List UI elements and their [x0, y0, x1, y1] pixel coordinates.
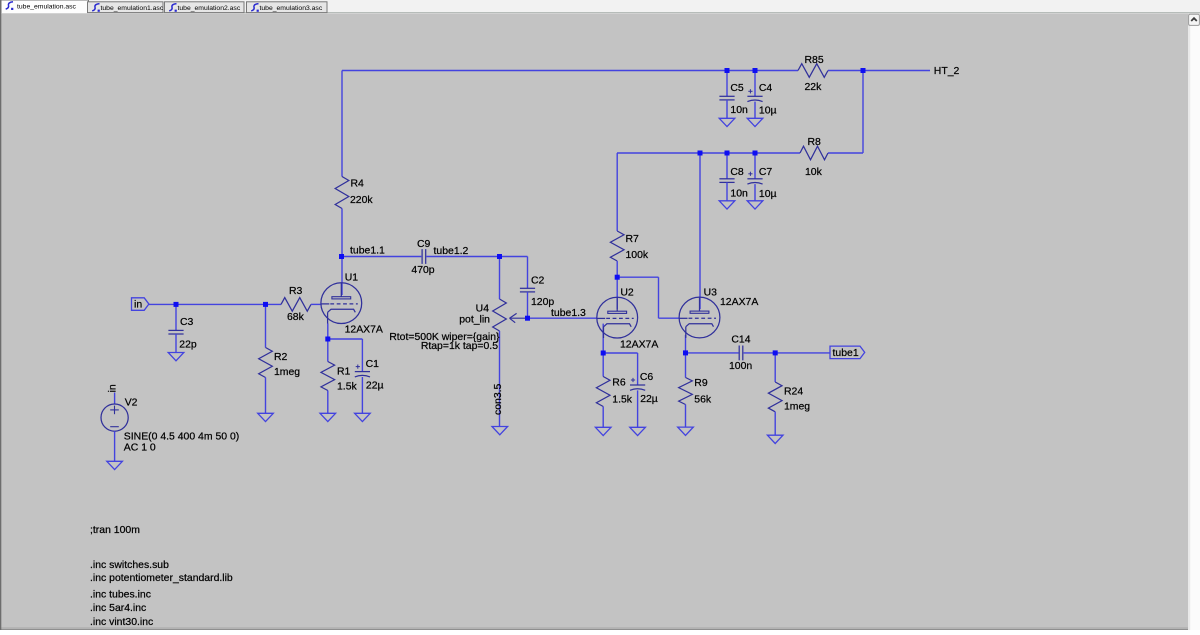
svg-text:.inc potentiometer_standard.li: .inc potentiometer_standard.lib: [90, 573, 233, 584]
svg-text:22µ: 22µ: [640, 394, 658, 405]
svg-text:12AX7A: 12AX7A: [620, 339, 658, 350]
svg-text:C3: C3: [180, 317, 194, 328]
svg-text:R7: R7: [626, 234, 640, 245]
svg-text:;tran 100m: ;tran 100m: [90, 525, 140, 536]
svg-text:AC 1 0: AC 1 0: [124, 443, 156, 454]
svg-text:R3: R3: [289, 286, 303, 297]
svg-text:HT_2: HT_2: [934, 66, 960, 77]
svg-text:R6: R6: [612, 378, 626, 389]
svg-text:220k: 220k: [350, 195, 373, 206]
svg-text:C9: C9: [417, 239, 431, 250]
svg-text:C7: C7: [759, 167, 773, 178]
svg-text:10n: 10n: [730, 189, 748, 200]
svg-text:tube1: tube1: [833, 348, 859, 359]
svg-text:R1: R1: [337, 367, 351, 378]
svg-text:470p: 470p: [411, 265, 434, 276]
svg-text:Rtap=1k tap=0.5: Rtap=1k tap=0.5: [421, 341, 498, 352]
svg-text:SINE(0 4.5 400 4m 50 0): SINE(0 4.5 400 4m 50 0): [124, 432, 239, 443]
svg-text:U3: U3: [704, 287, 718, 298]
svg-text:1meg: 1meg: [274, 367, 300, 378]
svg-text:10k: 10k: [805, 167, 823, 178]
svg-text:.inc tubes.inc: .inc tubes.inc: [90, 590, 151, 601]
svg-text:tube_emulation.asc: tube_emulation.asc: [17, 3, 77, 10]
svg-text:68k: 68k: [287, 312, 305, 323]
svg-text:.inc 5ar4.inc: .inc 5ar4.inc: [90, 603, 146, 614]
svg-text:1.5k: 1.5k: [337, 382, 358, 393]
svg-text:22k: 22k: [805, 82, 823, 93]
svg-text:V2: V2: [125, 398, 138, 409]
svg-text:tube_emulation1.asc: tube_emulation1.asc: [101, 5, 164, 12]
svg-text:U4: U4: [476, 304, 490, 315]
svg-text:.inc switches.sub: .inc switches.sub: [90, 560, 169, 571]
svg-text:22p: 22p: [179, 340, 197, 351]
svg-text:10µ: 10µ: [759, 189, 777, 200]
svg-text:R8: R8: [808, 137, 822, 148]
svg-text:con3.5: con3.5: [493, 383, 504, 415]
svg-text:100k: 100k: [626, 250, 649, 261]
svg-text:C2: C2: [531, 276, 545, 287]
svg-text:C8: C8: [730, 167, 744, 178]
svg-text:R2: R2: [274, 352, 288, 363]
svg-text:U1: U1: [345, 273, 359, 284]
svg-text:12AX7A: 12AX7A: [345, 325, 383, 336]
svg-text:R4: R4: [351, 179, 365, 190]
svg-text:56k: 56k: [694, 395, 712, 406]
svg-text:10n: 10n: [730, 105, 748, 116]
svg-text:tube_emulation3.asc: tube_emulation3.asc: [260, 5, 323, 12]
svg-text:1.5k: 1.5k: [612, 395, 633, 406]
svg-text:22µ: 22µ: [366, 381, 384, 392]
svg-text:tube_emulation2.asc: tube_emulation2.asc: [178, 5, 241, 12]
svg-text:C6: C6: [640, 372, 654, 383]
svg-text:10µ: 10µ: [759, 106, 777, 117]
svg-text:C5: C5: [730, 83, 744, 94]
svg-text:100n: 100n: [729, 361, 752, 372]
svg-text:C14: C14: [731, 335, 750, 346]
svg-text:R85: R85: [805, 55, 824, 66]
svg-text:in: in: [108, 384, 119, 392]
svg-text:C4: C4: [759, 83, 773, 94]
svg-text:U2: U2: [620, 287, 634, 298]
svg-text:pot_lin: pot_lin: [459, 315, 490, 326]
svg-text:tube1.3: tube1.3: [551, 308, 586, 319]
svg-text:tube1.1: tube1.1: [350, 246, 385, 257]
svg-text:1meg: 1meg: [784, 402, 810, 413]
svg-text:C1: C1: [366, 359, 380, 370]
svg-text:in: in: [134, 300, 142, 311]
svg-text:R9: R9: [694, 378, 708, 389]
svg-text:12AX7A: 12AX7A: [720, 297, 758, 308]
svg-text:120p: 120p: [531, 297, 554, 308]
svg-text:.inc vint30.inc: .inc vint30.inc: [90, 617, 153, 628]
svg-text:tube1.2: tube1.2: [434, 246, 469, 257]
svg-text:R24: R24: [784, 387, 803, 398]
